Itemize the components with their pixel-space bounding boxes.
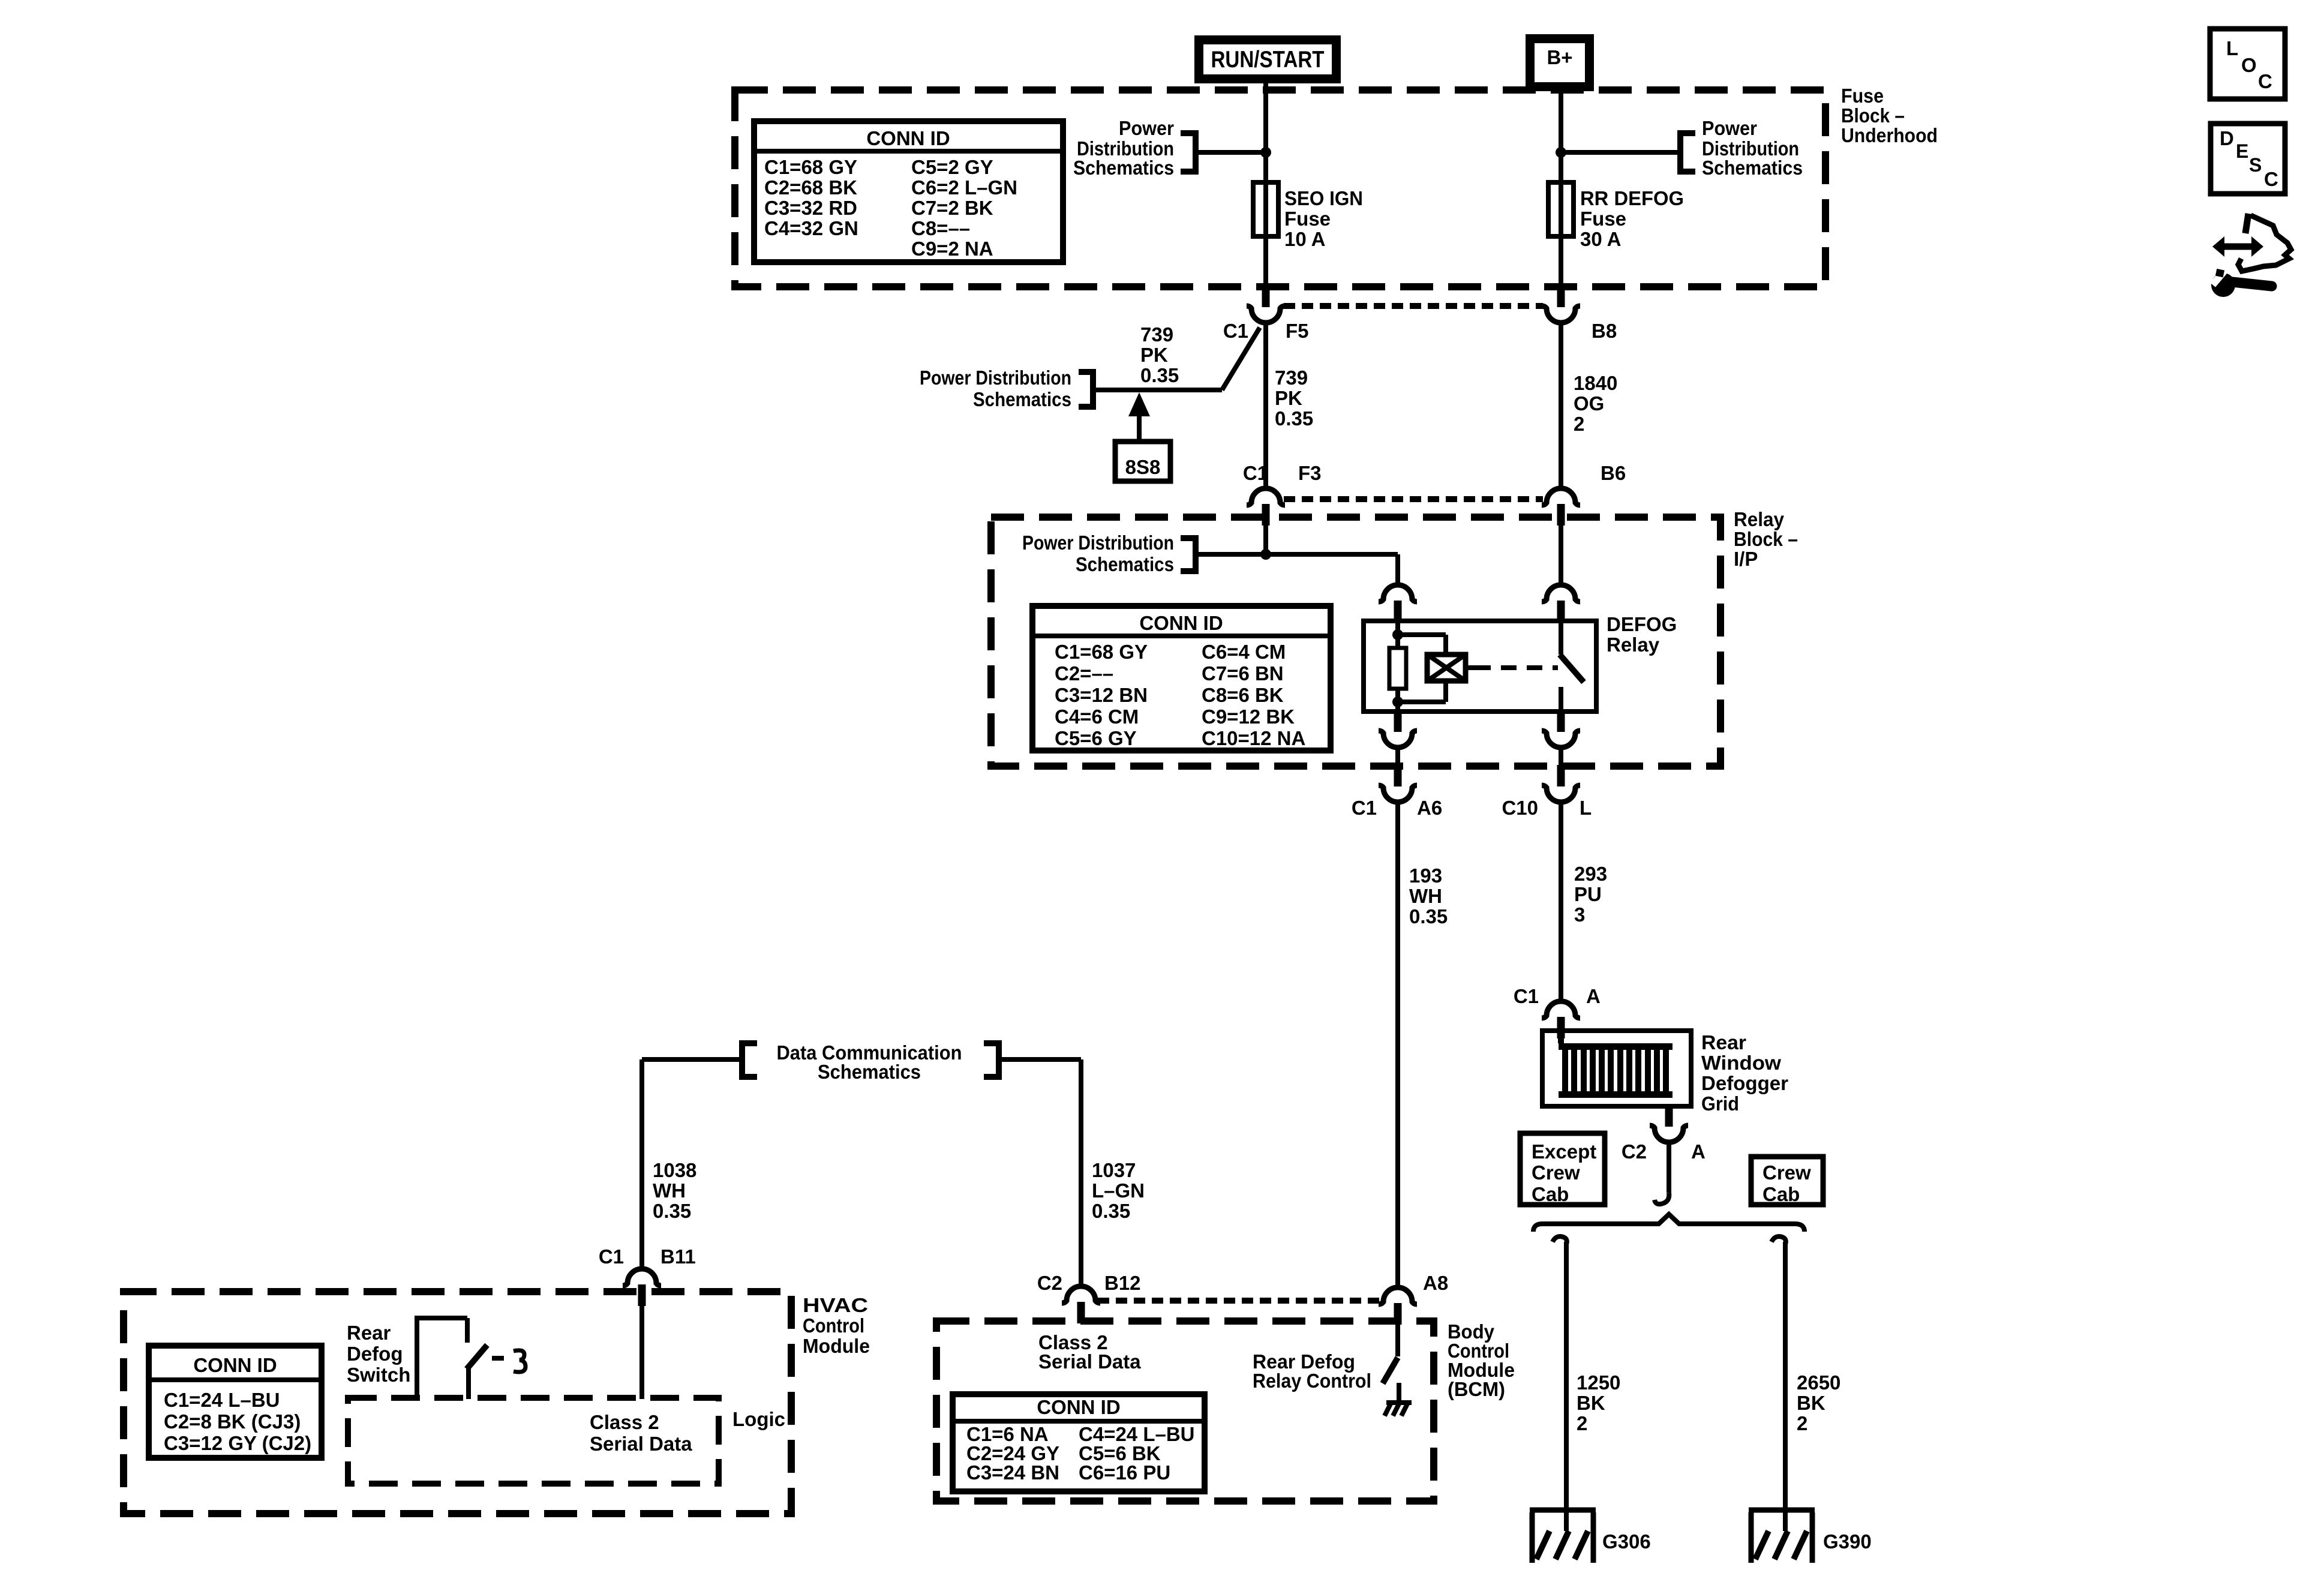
svg-text:Schematics: Schematics: [973, 388, 1071, 410]
svg-text:C2=8 BK (CJ3): C2=8 BK (CJ3): [164, 1410, 301, 1433]
svg-text:Rear: Rear: [1701, 1031, 1746, 1053]
svg-text:C1: C1: [1352, 797, 1377, 819]
svg-text:1250: 1250: [1577, 1371, 1620, 1394]
svg-text:S: S: [2249, 154, 2262, 176]
svg-text:C3=12 BN: C3=12 BN: [1055, 684, 1148, 706]
svg-text:C1: C1: [1223, 320, 1248, 342]
svg-text:C10=12 NA: C10=12 NA: [1202, 727, 1305, 749]
svg-text:B8: B8: [1592, 320, 1617, 342]
svg-text:C9=12 BK: C9=12 BK: [1202, 706, 1295, 728]
svg-text:A: A: [1691, 1140, 1706, 1163]
svg-text:2: 2: [1797, 1412, 1807, 1434]
svg-text:Power: Power: [1702, 117, 1757, 139]
svg-text:Relay: Relay: [1734, 508, 1785, 530]
svg-text:Module: Module: [803, 1335, 870, 1357]
svg-text:Rear: Rear: [347, 1322, 391, 1344]
svg-text:C4=32 GN: C4=32 GN: [764, 217, 858, 239]
svg-text:Relay Control: Relay Control: [1253, 1370, 1371, 1392]
svg-text:F5: F5: [1286, 320, 1309, 342]
svg-text:C5=2 GY: C5=2 GY: [911, 156, 993, 178]
svg-text:1840: 1840: [1574, 372, 1617, 394]
svg-text:A6: A6: [1417, 797, 1442, 819]
svg-text:Block –: Block –: [1841, 104, 1905, 127]
svg-text:Fuse: Fuse: [1284, 208, 1331, 230]
svg-text:A8: A8: [1423, 1272, 1448, 1294]
svg-text:C8=––: C8=––: [911, 217, 970, 239]
svg-text:WH: WH: [653, 1179, 686, 1202]
svg-text:B+: B+: [1547, 46, 1572, 68]
svg-text:Relay: Relay: [1607, 634, 1660, 656]
svg-text:RUN/START: RUN/START: [1211, 47, 1325, 73]
svg-text:(BCM): (BCM): [1448, 1378, 1505, 1400]
svg-text:30 A: 30 A: [1580, 228, 1621, 250]
svg-text:G306: G306: [1602, 1530, 1651, 1553]
svg-text:Underhood: Underhood: [1841, 124, 1938, 146]
svg-text:CONN ID: CONN ID: [193, 1354, 277, 1376]
svg-text:CONN ID: CONN ID: [1037, 1396, 1120, 1418]
svg-text:0.35: 0.35: [1275, 407, 1313, 430]
svg-text:C1: C1: [1243, 462, 1268, 484]
svg-text:0.35: 0.35: [1092, 1200, 1130, 1222]
svg-text:C2: C2: [1622, 1140, 1647, 1163]
svg-text:Defog: Defog: [347, 1343, 403, 1365]
svg-text:CONN ID: CONN ID: [1139, 612, 1223, 634]
svg-text:Crew: Crew: [1532, 1161, 1580, 1184]
svg-text:L: L: [2226, 37, 2238, 59]
svg-text:C7=2 BK: C7=2 BK: [911, 197, 993, 219]
svg-text:C3=12 GY (CJ2): C3=12 GY (CJ2): [164, 1432, 311, 1454]
svg-text:C3=32 RD: C3=32 RD: [764, 197, 857, 219]
svg-text:C3=24 BN: C3=24 BN: [966, 1461, 1059, 1484]
svg-text:BK: BK: [1797, 1392, 1825, 1414]
svg-text:L: L: [1580, 797, 1592, 819]
svg-text:C4=6 CM: C4=6 CM: [1055, 706, 1139, 728]
svg-text:PK: PK: [1140, 344, 1168, 366]
svg-text:Schematics: Schematics: [1076, 553, 1174, 575]
svg-text:F3: F3: [1298, 462, 1322, 484]
svg-text:0.35: 0.35: [653, 1200, 691, 1222]
svg-text:Crew: Crew: [1762, 1161, 1811, 1184]
svg-text:CONN ID: CONN ID: [866, 127, 950, 149]
svg-text:Class 2: Class 2: [590, 1411, 659, 1433]
svg-text:Serial Data: Serial Data: [590, 1433, 692, 1455]
svg-text:3: 3: [1574, 903, 1585, 926]
svg-text:Power Distribution: Power Distribution: [1022, 532, 1174, 554]
svg-text:C6=16 PU: C6=16 PU: [1079, 1461, 1170, 1484]
svg-text:C1=68 GY: C1=68 GY: [764, 156, 857, 178]
svg-text:C10: C10: [1502, 797, 1538, 819]
svg-text:Switch: Switch: [347, 1364, 410, 1386]
svg-text:0.35: 0.35: [1409, 905, 1448, 927]
svg-text:A: A: [1586, 985, 1601, 1007]
svg-text:Schematics: Schematics: [818, 1061, 921, 1083]
svg-text:2: 2: [1574, 413, 1584, 435]
svg-text:Power Distribution: Power Distribution: [920, 367, 1071, 389]
svg-text:Serial Data: Serial Data: [1038, 1350, 1141, 1373]
svg-text:C1: C1: [599, 1245, 624, 1268]
svg-text:DEFOG: DEFOG: [1607, 613, 1677, 635]
svg-text:C8=6 BK: C8=6 BK: [1202, 684, 1284, 706]
svg-text:Grid: Grid: [1701, 1092, 1739, 1115]
svg-text:HVAC: HVAC: [803, 1294, 868, 1316]
svg-text:C6=2 L–GN: C6=2 L–GN: [911, 176, 1017, 199]
svg-text:Fuse: Fuse: [1841, 85, 1884, 107]
svg-text:1037: 1037: [1092, 1159, 1136, 1181]
svg-text:C5=6 GY: C5=6 GY: [1055, 727, 1137, 749]
svg-text:B6: B6: [1601, 462, 1626, 484]
svg-text:O: O: [2241, 54, 2257, 76]
svg-text:G390: G390: [1823, 1530, 1872, 1553]
svg-text:Defogger: Defogger: [1701, 1072, 1788, 1094]
svg-text:PK: PK: [1275, 387, 1302, 409]
svg-text:Logic: Logic: [732, 1408, 785, 1430]
svg-text:B12: B12: [1104, 1272, 1141, 1294]
svg-text:Except: Except: [1532, 1140, 1596, 1163]
svg-text:Control: Control: [803, 1314, 864, 1337]
svg-text:C7=6 BN: C7=6 BN: [1202, 662, 1284, 685]
svg-text:Power: Power: [1119, 117, 1174, 139]
svg-text:C1: C1: [1514, 985, 1539, 1007]
svg-text:SEO IGN: SEO IGN: [1284, 187, 1363, 209]
svg-text:Cab: Cab: [1532, 1183, 1569, 1205]
svg-text:Cab: Cab: [1762, 1183, 1800, 1205]
svg-text:193: 193: [1409, 864, 1442, 887]
svg-text:C1=24 L–BU: C1=24 L–BU: [164, 1389, 280, 1411]
svg-text:L–GN: L–GN: [1092, 1179, 1145, 1202]
svg-text:C: C: [2258, 70, 2272, 92]
svg-text:RR DEFOG: RR DEFOG: [1580, 187, 1684, 209]
svg-text:10 A: 10 A: [1284, 228, 1325, 250]
svg-text:C9=2 NA: C9=2 NA: [911, 238, 993, 260]
svg-text:2650: 2650: [1797, 1371, 1840, 1394]
svg-text:D: D: [2220, 127, 2234, 149]
svg-text:BK: BK: [1577, 1392, 1605, 1414]
svg-text:1038: 1038: [653, 1159, 696, 1181]
svg-text:Block –: Block –: [1734, 528, 1798, 550]
svg-text:PU: PU: [1574, 883, 1602, 905]
svg-text:739: 739: [1275, 367, 1308, 389]
svg-text:C: C: [2264, 168, 2278, 190]
svg-text:C2=––: C2=––: [1055, 662, 1113, 685]
svg-text:I/P: I/P: [1734, 548, 1758, 570]
svg-text:293: 293: [1574, 863, 1607, 885]
svg-text:8S8: 8S8: [1125, 456, 1161, 478]
svg-text:C6=4 CM: C6=4 CM: [1202, 641, 1286, 663]
svg-text:Schematics: Schematics: [1702, 157, 1803, 179]
svg-text:0.35: 0.35: [1140, 364, 1179, 386]
svg-text:OG: OG: [1574, 392, 1604, 415]
svg-text:C1=68 GY: C1=68 GY: [1055, 641, 1148, 663]
svg-text:WH: WH: [1409, 885, 1442, 907]
svg-text:739: 739: [1140, 323, 1173, 346]
svg-text:Schematics: Schematics: [1073, 157, 1174, 179]
svg-text:Fuse: Fuse: [1580, 208, 1626, 230]
svg-text:C2=68 BK: C2=68 BK: [764, 176, 857, 199]
svg-text:2: 2: [1577, 1412, 1587, 1434]
svg-text:Window: Window: [1701, 1052, 1781, 1074]
svg-text:E: E: [2236, 140, 2248, 162]
svg-text:C2: C2: [1037, 1272, 1062, 1294]
svg-text:B11: B11: [660, 1245, 696, 1268]
